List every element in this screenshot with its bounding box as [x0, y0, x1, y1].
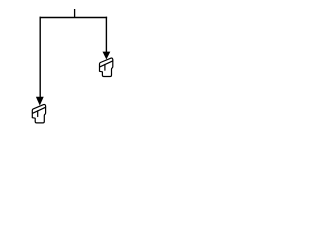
left arrowhead [36, 97, 44, 106]
left vertical wire [39, 17, 41, 98]
right vertical wire [105, 17, 107, 53]
right arrowhead [103, 52, 111, 60]
right glyph node [100, 58, 113, 76]
left glyph node [32, 104, 45, 122]
horizontal wire [40, 17, 108, 19]
top stub wire [74, 9, 76, 18]
